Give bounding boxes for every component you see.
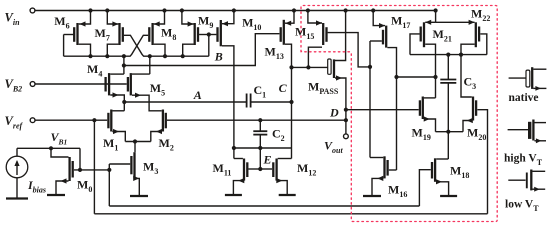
svg-text:B: B [214, 50, 223, 64]
svg-text:A: A [193, 88, 202, 102]
svg-text:native: native [509, 92, 539, 104]
svg-text:E: E [263, 153, 272, 167]
svg-text:D: D [329, 106, 339, 120]
svg-text:C: C [279, 81, 288, 95]
